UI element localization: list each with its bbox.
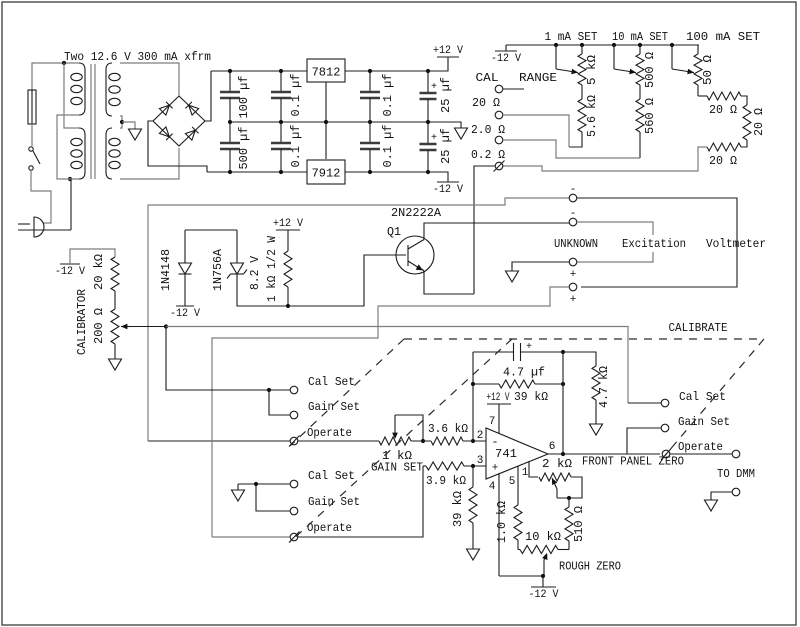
-12V at op amp (542, 576, 544, 587)
wire pin4 row (499, 575, 543, 577)
svg-text:0.1 µf: 0.1 µf (289, 125, 303, 168)
terminal Excitation plus (569, 258, 577, 266)
wire Q1 emitter (422, 269, 474, 294)
svg-text:200 Ω: 200 Ω (92, 308, 106, 344)
trimpot R18 2k FRONT PANEL ZERO (539, 473, 571, 481)
svg-text:Cal Set: Cal Set (308, 375, 355, 389)
capacitor C2 500uf (229, 122, 231, 143)
svg-text:500 Ω: 500 Ω (643, 52, 657, 88)
switch contact Gain Set 3 (661, 424, 669, 432)
svg-text:+: + (570, 269, 577, 281)
svg-text:CALIBRATOR: CALIBRATOR (75, 289, 89, 355)
pin 4 to -12V (498, 473, 500, 576)
transformer T1 secondary winding (106, 63, 112, 116)
ground at excitation (506, 271, 519, 282)
svg-text:100 mA SET: 100 mA SET (686, 30, 760, 44)
regulator U2 7812 (307, 59, 345, 82)
svg-text:-12 V: -12 V (491, 53, 521, 65)
switch contact Operate 1 (290, 437, 298, 445)
svg-text:2: 2 (477, 430, 484, 442)
svg-text:+12 V: +12 V (487, 392, 510, 404)
svg-text:39 kΩ: 39 kΩ (451, 491, 465, 527)
svg-text:4.7 kΩ: 4.7 kΩ (597, 366, 611, 408)
capacitor C8 25uf (427, 122, 429, 144)
wire voltmeter loop (577, 198, 737, 287)
svg-text:CAL: CAL (476, 71, 499, 85)
svg-text:5 kΩ: 5 kΩ (585, 55, 599, 85)
wire gain set bracket 3 (627, 428, 661, 454)
wire 2k loop (557, 477, 582, 498)
svg-text:3.6 kΩ: 3.6 kΩ (428, 422, 468, 436)
svg-text:20 Ω: 20 Ω (709, 154, 737, 168)
wire 0.2 contact to emitter (474, 166, 495, 294)
wire SET rail (506, 44, 699, 46)
ground at DMM (705, 500, 718, 511)
switch contact Gain Set 2 (290, 507, 298, 515)
wire pin2 riser (472, 352, 474, 441)
switch contact 20ohm (495, 111, 503, 119)
trimpot R5 50 100mA SET (697, 45, 699, 54)
dashed calibrate diagonal 2 (290, 339, 512, 542)
svg-text:Gain Set: Gain Set (308, 400, 360, 414)
transformer T1 primary winding (79, 63, 85, 115)
wire calibrator wiper (131, 326, 166, 328)
resistor R9 1k 1/2W (287, 230, 289, 251)
wire -V rail (207, 171, 307, 173)
svg-text:25 µf: 25 µf (439, 77, 453, 113)
capacitor C9 4.7uf (473, 351, 514, 353)
transformer core (90, 64, 92, 179)
wire unknown plus routing (212, 287, 569, 537)
trimpot R11 200 CALIBRATOR (114, 291, 116, 309)
wire cal set 2 feed (238, 483, 290, 485)
resistor R17 4.7k (592, 366, 600, 400)
switch contact Gain Set 1 (290, 411, 298, 419)
switch contact Cal Set 3 (628, 402, 661, 404)
-12V feed SET rail (505, 45, 507, 51)
svg-text:50 Ω: 50 Ω (701, 55, 715, 85)
+12V at R9 (276, 229, 300, 231)
resistor R16 39k feedback (473, 383, 499, 385)
dashed calibrate diagonal 1 (290, 339, 404, 446)
capacitor C1 100uf (229, 71, 231, 92)
wire 2.0ohm contact (503, 140, 640, 158)
resistor R8 20 (707, 143, 741, 151)
dashed calibrate boundary top (404, 338, 764, 340)
switch contact 0.2ohm (495, 162, 503, 170)
wire plus terminal ground (512, 262, 569, 271)
svg-text:20 Ω: 20 Ω (472, 96, 500, 110)
pin 7 +12V (498, 404, 500, 433)
svg-text:+12 V: +12 V (433, 45, 463, 57)
svg-text:510 Ω: 510 Ω (572, 506, 586, 542)
svg-text:Cal Set: Cal Set (679, 390, 726, 404)
switch contact Cal Set 2 (290, 480, 298, 488)
wire R6 to R7 (741, 96, 747, 105)
switch contact Operate 2 (290, 533, 298, 541)
svg-text:2 kΩ: 2 kΩ (542, 457, 572, 471)
wire secondary top to bridge (120, 63, 179, 96)
svg-text:500 µf: 500 µf (237, 127, 251, 170)
wire calibrate bus (166, 327, 628, 404)
svg-text:3: 3 (477, 455, 484, 467)
svg-text:1: 1 (522, 467, 529, 479)
capacitor C3 0.1uf (280, 71, 282, 92)
svg-text:+: + (570, 294, 577, 306)
svg-text:7812: 7812 (312, 66, 341, 80)
svg-text:CALIBRATE: CALIBRATE (669, 321, 728, 335)
wire wiper to cal set row (166, 327, 290, 391)
svg-text:GAIN SET: GAIN SET (371, 461, 423, 475)
resistor R20 1.0k (517, 504, 519, 506)
svg-text:+: + (492, 463, 499, 475)
diode bridge D3 (159, 127, 169, 137)
svg-text:+: + (431, 133, 437, 144)
wire operate2 to 3.9k (298, 466, 423, 537)
svg-text:7912: 7912 (312, 167, 341, 181)
svg-text:Operate: Operate (307, 426, 352, 440)
svg-text:Q1: Q1 (387, 225, 401, 239)
wire operate loop to minus terminal (148, 440, 290, 442)
diode bridge D2 (189, 105, 199, 115)
resistor R14 3.9k (423, 465, 426, 467)
svg-text:1N4148: 1N4148 (159, 249, 173, 291)
wire AC line top (32, 63, 79, 90)
resistor R7 20 (743, 105, 751, 140)
svg-text:0.2 Ω: 0.2 Ω (471, 148, 505, 162)
svg-text:3.9 kΩ: 3.9 kΩ (426, 474, 466, 488)
svg-text:2N2222A: 2N2222A (391, 206, 442, 220)
svg-text:100 µf: 100 µf (237, 76, 251, 119)
capacitor C6 0.1uf (369, 122, 371, 143)
wire operate 2 row (212, 536, 290, 538)
wire Q1 collector (424, 223, 569, 240)
svg-text:-12 V: -12 V (433, 184, 463, 196)
bridge rectifier diamond (153, 96, 205, 146)
capacitor C5 0.1uf (369, 71, 371, 92)
svg-text:560 Ω: 560 Ω (643, 98, 657, 134)
resistor R2 5.6k (578, 99, 586, 132)
svg-text:1 kΩ 1/2 W: 1 kΩ 1/2 W (265, 235, 279, 302)
svg-text:5.6 kΩ: 5.6 kΩ (585, 95, 599, 137)
svg-text:5: 5 (509, 476, 516, 488)
wire gain set bracket 2 (256, 484, 290, 511)
trimpot R1 5k 1mA SET (580, 43, 584, 47)
resistor R10 20k (111, 257, 119, 291)
wire ground mid rail (230, 122, 461, 128)
-12V at 1N4148 (176, 305, 194, 307)
ground at 39k (467, 549, 480, 560)
regulator U3 7912 (307, 160, 345, 184)
svg-text:Voltmeter: Voltmeter (706, 237, 766, 251)
node junction primaries bottom (68, 177, 72, 181)
op-amp U1 741 (486, 428, 548, 479)
wire R7 to R8 (741, 140, 747, 147)
wire regulators common (325, 82, 327, 159)
svg-text:-12 V: -12 V (529, 589, 559, 601)
wire fuse to switch (31, 124, 33, 146)
trimpot R21 10k ROUGH ZERO (518, 549, 520, 551)
ground at 4.7k (590, 424, 603, 435)
fuse F1 (31, 90, 33, 124)
ground center tap (129, 129, 142, 140)
svg-text:39 kΩ: 39 kΩ (514, 390, 548, 404)
svg-text:4.7 µf: 4.7 µf (503, 366, 545, 380)
pin 5 offset (517, 466, 519, 505)
wire 50ohm to 20ohm (698, 95, 707, 97)
diode bridge D1 (159, 105, 169, 115)
terminal TO DMM ground (732, 488, 740, 496)
svg-text:Operate: Operate (678, 440, 723, 454)
svg-text:Two 12.6 V 300 mA xfrm: Two 12.6 V 300 mA xfrm (64, 50, 211, 64)
ground mid rail (455, 128, 468, 139)
svg-text:+: + (431, 82, 437, 93)
capacitor C7 25uf (427, 71, 429, 93)
resistor R13 3.6k (411, 440, 431, 442)
wire 20ohm contact (503, 115, 569, 147)
svg-text:1 mA SET: 1 mA SET (545, 30, 598, 44)
svg-text:ROUGH ZERO: ROUGH ZERO (559, 560, 621, 574)
trimpot R12 1k GAIN SET (379, 437, 411, 445)
node pin2 (471, 439, 475, 443)
svg-text:10 mA SET: 10 mA SET (612, 30, 668, 44)
svg-text:20 kΩ: 20 kΩ (92, 254, 106, 290)
svg-text:20 Ω: 20 Ω (709, 103, 737, 117)
svg-text:+: + (526, 342, 532, 353)
svg-text:TO DMM: TO DMM (717, 467, 755, 481)
svg-text:25 µf: 25 µf (439, 128, 453, 164)
wire to 4.7k (563, 352, 596, 366)
svg-text:1N756A: 1N756A (211, 248, 225, 291)
switch contact Operate 3 (662, 450, 670, 458)
wire 20ohm return (503, 147, 707, 171)
wire gain set bracket 1 (269, 390, 290, 415)
svg-text:4: 4 (489, 481, 496, 493)
transformer T2 secondary winding (106, 128, 112, 179)
wire calibrator feed (70, 249, 115, 264)
-12V at calibrator (60, 263, 80, 265)
svg-text:+12 V: +12 V (273, 218, 303, 230)
svg-text:RANGE: RANGE (519, 71, 557, 85)
trimpot R3 500 10mA SET (638, 43, 642, 47)
svg-text:1.0 kΩ: 1.0 kΩ (495, 501, 509, 543)
wire secondary bottom to bridge (120, 148, 179, 179)
capacitor C4 0.1uf (280, 122, 282, 143)
resistor R4 560 (636, 99, 644, 132)
svg-text:-: - (491, 435, 498, 449)
node base feed (286, 304, 290, 308)
ground at bank2 (237, 484, 239, 490)
wire center tap (120, 116, 122, 128)
resistor R19 510 (568, 498, 570, 507)
switch contact Cal Set 1 (267, 388, 271, 392)
-12V supply terminal (428, 172, 448, 182)
svg-text:UNKNOWN: UNKNOWN (554, 237, 598, 251)
diode bridge D4 (185, 130, 195, 140)
switch contact 2.0ohm (495, 136, 503, 144)
resistor R6 20 (707, 92, 741, 100)
svg-text:7: 7 (489, 416, 496, 428)
svg-text:20 Ω: 20 Ω (752, 108, 766, 136)
wire excitation bracket upper (577, 222, 653, 235)
switch contact CAL (495, 85, 503, 93)
ground at calibrator (114, 344, 116, 359)
pin 6 output (548, 453, 660, 455)
zener D6 1N756A (236, 230, 238, 263)
svg-text:8.2 V: 8.2 V (248, 255, 262, 290)
wire plug neutral to xfmr (70, 179, 72, 230)
wire pin6 riser (562, 352, 564, 454)
node pin3 (471, 464, 475, 468)
node pot to 3.6k (421, 439, 425, 443)
switch S1 power (29, 147, 33, 151)
diode D5 1N4148 (184, 230, 186, 263)
pin 1 offset (529, 461, 538, 477)
wire bridge plus output (205, 71, 211, 121)
wire base feed (288, 255, 406, 306)
svg-text:10 kΩ: 10 kΩ (525, 530, 561, 544)
terminal TO DMM hot (732, 450, 740, 458)
svg-text:2.0 Ω: 2.0 Ω (471, 123, 505, 137)
transformer T2 primary winding (79, 128, 85, 179)
wire operate1 to pot (298, 440, 379, 442)
wire diode link (185, 229, 237, 231)
svg-text:0.1 µf: 0.1 µf (381, 74, 395, 117)
wire primary link left (57, 115, 79, 179)
dashed calibrate diagonal 3 (662, 339, 764, 459)
svg-text:6: 6 (549, 441, 556, 453)
wire +V rail (211, 70, 307, 72)
wire zener to node (237, 274, 288, 306)
+12V supply terminal (428, 57, 448, 71)
wire primary 2 top feed (64, 63, 79, 128)
wire bridge minus output (148, 121, 207, 172)
wire excitation bracket lower (577, 252, 653, 262)
svg-text:741: 741 (495, 447, 517, 461)
svg-text:Cal Set: Cal Set (308, 469, 355, 483)
resistor R15 39k to ground (472, 466, 474, 487)
terminal UNKNOWN plus (569, 283, 577, 291)
transistor Q1 2N2222A (396, 236, 434, 274)
AC plug (34, 217, 44, 237)
wire output to DMM jack (670, 453, 732, 455)
wire switch to plug (31, 170, 51, 223)
svg-text:-12 V: -12 V (170, 308, 200, 320)
svg-text:Operate: Operate (307, 521, 352, 535)
svg-text:Gain Set: Gain Set (678, 415, 730, 429)
svg-text:0.1 µf: 0.1 µf (381, 125, 395, 168)
node junction AC top (62, 61, 66, 65)
svg-text:-12 V: -12 V (55, 266, 85, 278)
svg-text:0.1 µf: 0.1 µf (289, 74, 303, 117)
svg-text:Excitation: Excitation (622, 237, 686, 251)
